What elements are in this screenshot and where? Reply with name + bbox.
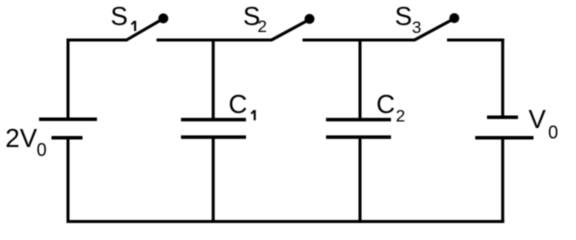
label C2 <box>376 89 405 126</box>
svg-text:3: 3 <box>412 18 421 37</box>
battery B1 (2V0) <box>39 119 97 138</box>
label S3 <box>395 1 422 37</box>
svg-text:2V: 2V <box>5 123 37 153</box>
wire: top rail segment from battery to S1 left contact <box>67 39 128 42</box>
svg-text:S: S <box>395 1 412 31</box>
switch S1 <box>127 13 169 40</box>
capacitor C2 <box>326 120 391 138</box>
label S1 <box>111 1 136 31</box>
label 2V0 <box>5 123 46 160</box>
label V0 <box>529 104 559 143</box>
svg-text:0: 0 <box>548 123 558 143</box>
wire: right vertical below battery B2 <box>501 138 504 223</box>
wire: C2 branch vertical above capacitor <box>359 40 362 120</box>
battery B2 (V0) <box>475 117 533 138</box>
wire: C2 branch vertical below capacitor <box>359 137 362 223</box>
svg-text:C: C <box>229 89 248 119</box>
wire: C1 branch vertical below capacitor <box>212 137 215 223</box>
switch S2 <box>272 14 315 40</box>
wire: C1 branch vertical above capacitor <box>212 40 215 120</box>
svg-text:C: C <box>376 89 395 119</box>
wire: left vertical below battery B1 <box>67 138 70 223</box>
svg-text:2: 2 <box>258 17 267 36</box>
label C1 <box>229 89 255 121</box>
svg-text:2: 2 <box>396 107 405 126</box>
svg-text:V: V <box>529 104 547 134</box>
label S2 <box>243 1 267 36</box>
wire: top rail segment from S1 right contact past C1 node to S2 left contact <box>157 39 273 42</box>
switch S3 <box>415 13 460 40</box>
wire: right vertical above battery B2 <box>501 39 504 118</box>
wire: top rail segment from S2 right contact past C2 node to S3 left contact <box>303 39 416 42</box>
svg-text:S: S <box>111 1 128 31</box>
wire: bottom rail <box>67 220 505 223</box>
capacitor C1 <box>181 120 246 138</box>
svg-text:0: 0 <box>37 140 47 160</box>
wire: left vertical above battery B1 <box>67 39 70 120</box>
wire: top rail segment from S3 right contact to right corner <box>447 39 504 42</box>
